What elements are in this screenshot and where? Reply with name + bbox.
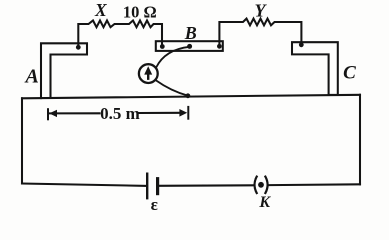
- svg-text:X: X: [94, 0, 108, 20]
- svg-text:0.5 m: 0.5 m: [100, 104, 140, 123]
- svg-text:ε: ε: [151, 195, 158, 214]
- svg-text:B: B: [184, 23, 197, 43]
- svg-text:K: K: [258, 194, 271, 211]
- svg-text:10 Ω: 10 Ω: [123, 2, 157, 21]
- svg-text:A: A: [24, 66, 39, 88]
- svg-text:C: C: [343, 63, 356, 84]
